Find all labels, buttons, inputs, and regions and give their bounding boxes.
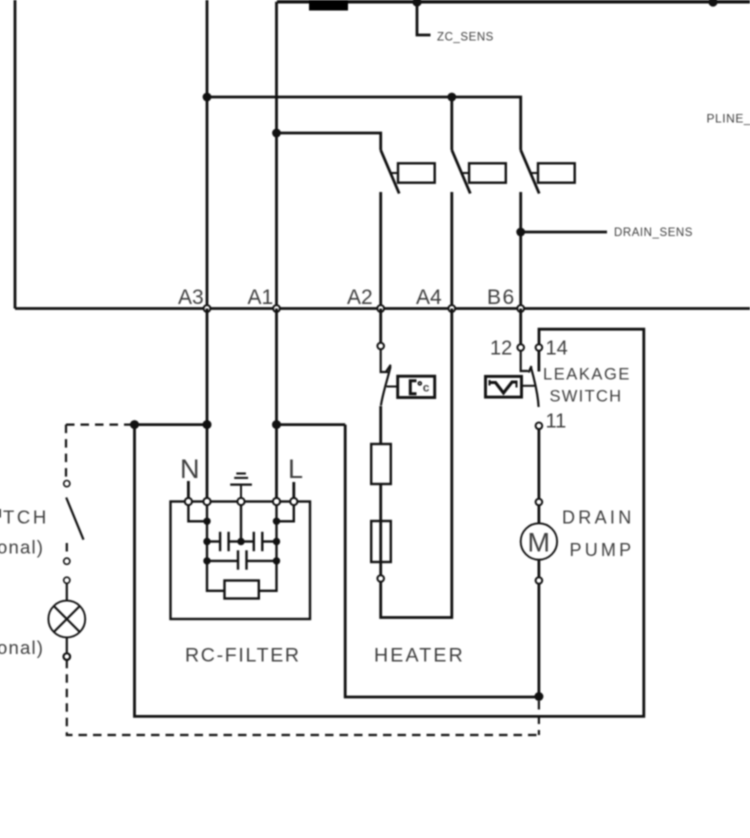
relay contact K2 (452, 150, 506, 194)
terminal heater bottom (377, 575, 384, 582)
wire relay feed rail y97 (207, 97, 521, 150)
wire L stub (292, 482, 295, 498)
wire N rail y424 left segment (135, 423, 208, 426)
terminal 14 (536, 344, 543, 351)
svg-text:N: N (180, 454, 200, 484)
wire A3 column lower (206, 309, 209, 499)
wire A3 column upper (206, 0, 209, 309)
terminal lamp bottom (64, 653, 71, 660)
wire B6 upper (switch3 bottom to bus) (519, 192, 522, 309)
terminal A3 (204, 305, 211, 312)
svg-text:11: 11 (546, 411, 567, 433)
thermostat sensor box [°C] (398, 376, 435, 397)
svg-text:DRAIN: DRAIN (562, 508, 635, 528)
terminal switch top (64, 481, 70, 487)
svg-text:B6: B6 (487, 286, 516, 309)
wire switch2 top lead (450, 97, 453, 150)
node DRAIN_SENS tap (516, 228, 525, 237)
relay contact K1 (381, 150, 435, 194)
svg-text:M: M (528, 528, 551, 558)
resistor R heater (371, 444, 391, 484)
terminal A2 (377, 305, 384, 312)
wire switch1 feed (277, 133, 381, 150)
svg-text:A3: A3 (178, 286, 204, 309)
earth symbol (230, 474, 252, 499)
labels (178, 286, 568, 433)
node junction (452,97) (447, 93, 456, 102)
RC filter box (171, 502, 311, 620)
dashed feed top (66, 424, 135, 426)
heater branch: terminal circle (377, 343, 384, 350)
terminal A4 (448, 305, 455, 312)
svg-text:L: L (288, 454, 303, 484)
svg-text:RC-FILTER: RC-FILTER (185, 645, 301, 667)
motor M drain pump (521, 505, 557, 577)
terminal lamp top (64, 577, 70, 583)
wire A2 to thermostat (379, 309, 382, 343)
capacitor CX (207, 550, 277, 569)
svg-text:DRAIN_SENS: DRAIN_SENS (614, 227, 693, 239)
node ZC_SENS tap (412, 0, 421, 7)
svg-text:LEAKAGE: LEAKAGE (543, 366, 631, 384)
terminal switch bottom (64, 558, 70, 564)
leakage switch: wire B6 down (519, 309, 522, 345)
wire lamp bottom lead (66, 637, 68, 653)
node junction A1 x N-rail (272, 420, 281, 429)
terminal B6 (517, 305, 524, 312)
wire A1 column upper (275, 2, 278, 309)
terminal pump top (536, 499, 543, 506)
terminal A3 into filter (203, 498, 210, 505)
fuse (rect with through line) (371, 521, 391, 575)
RC filter internals (188, 505, 293, 599)
dashed drop (65, 425, 67, 481)
node junction (276.5,133) (272, 129, 281, 138)
svg-text:A4: A4 (416, 286, 442, 309)
wire A1 column lower (275, 309, 278, 499)
wire earth stem (240, 505, 242, 542)
svg-text:ZC_SENS: ZC_SENS (437, 32, 494, 44)
wire lamp top lead (66, 583, 68, 600)
wire 14 stub (538, 351, 541, 372)
door switch arm (66, 498, 83, 540)
thermostat contact (381, 349, 398, 405)
wire top edge (277, 0, 750, 3)
wire left border (14, 0, 17, 309)
svg-text:onal): onal) (0, 637, 44, 658)
enclosure outline (135, 329, 644, 716)
svg-text:onal): onal) (0, 537, 44, 558)
node N-rail junction (134.5,424.6) (130, 420, 139, 429)
terminal pump bottom (536, 577, 543, 584)
wire pump bottom (538, 584, 541, 697)
wire 11 to pump (538, 429, 541, 499)
wire N stub (187, 481, 190, 498)
wire thermostat to resistor (379, 406, 382, 444)
node junction (207,97) (203, 93, 212, 102)
terminal 12 (517, 344, 524, 351)
wire L internal jog (277, 505, 294, 521)
node junction A3 x N-rail (203, 420, 212, 429)
terminal 11 (536, 423, 543, 430)
wire N internal jog (188, 505, 207, 521)
wire DRAIN_SENS stub (521, 231, 607, 234)
relay contact K3 (521, 150, 575, 194)
wire A2 column (switch1 bottom to bus) (379, 192, 382, 309)
svg-text:SWITCH: SWITCH (550, 388, 623, 406)
terminal L (290, 498, 297, 505)
svg-text:TCH: TCH (3, 507, 49, 528)
bus main horizontal (15, 307, 750, 310)
dashed between (66, 543, 68, 558)
connector black block (309, 0, 348, 11)
node dots inside filter (203, 518, 280, 565)
capacitor CY1 (207, 532, 241, 551)
svg-text:PUMP: PUMP (570, 540, 635, 560)
svg-text:12: 12 (490, 338, 512, 360)
wire between resistor and fuse (379, 484, 382, 521)
dashed bottom return (67, 660, 539, 735)
wire A3 internal rail (207, 505, 225, 591)
wire N rail down and to pump junction (345, 425, 539, 697)
dashed stub to pump junction (538, 701, 540, 735)
resistor R filter (225, 581, 259, 599)
terminal N (185, 498, 192, 505)
terminal A1 (273, 305, 280, 312)
svg-text:c: c (423, 381, 430, 395)
lamp (48, 601, 85, 638)
wire ZC_SENS stub (417, 2, 431, 35)
svg-text:A2: A2 (347, 286, 373, 309)
svg-text:14: 14 (546, 338, 568, 360)
leakage sensor box (486, 376, 522, 397)
svg-text:PLINE_SE: PLINE_SE (707, 112, 750, 126)
svg-text:HEATER: HEATER (374, 645, 465, 667)
wire A1 internal rail (259, 505, 277, 591)
svg-text:A1: A1 (248, 286, 274, 309)
terminal A1 into filter (273, 498, 280, 505)
leakage switch arm (521, 351, 539, 407)
capacitor CY2 (241, 532, 277, 551)
terminal earth (237, 498, 244, 505)
node pump return junction (534, 692, 543, 701)
node PLINE tap (708, 0, 717, 7)
wire L rail y424 right segment (277, 423, 346, 426)
wire heater return to A4 (381, 309, 452, 618)
wire sensor link (522, 385, 535, 387)
wire A4 upper (switch2 bottom to bus) (450, 192, 453, 309)
door switch dashed circuit (48, 425, 539, 735)
